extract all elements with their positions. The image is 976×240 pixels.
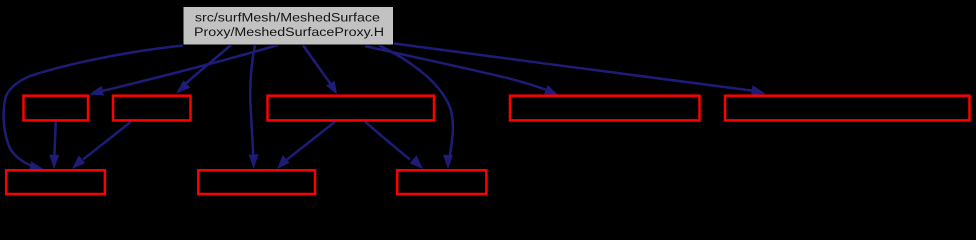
edge: MeshedSurfaceProxy.H -> boxC (right curve) bbox=[379, 46, 453, 157]
arrowhead into box4 bbox=[544, 85, 558, 95]
edge: MeshedSurfaceProxy.H -> box2 bbox=[183, 45, 231, 86]
arrowhead into box3 bbox=[326, 81, 337, 95]
edge: MeshedSurfaceProxy.H -> boxB (center curve) bbox=[250, 45, 255, 156]
edge: box2 -> boxA (diagonal) bbox=[83, 122, 131, 160]
edge: MeshedSurfaceProxy.H -> box3 bbox=[303, 45, 332, 86]
edge: MeshedSurfaceProxy.H -> boxA (long left swoop) bbox=[4, 46, 183, 166]
node box3 (included header, row 2 wide center) bbox=[268, 96, 435, 121]
edge: MeshedSurfaceProxy.H -> box1 bbox=[98, 45, 278, 92]
arrowhead into boxA (right) bbox=[72, 156, 85, 170]
arrowhead into boxA (left) bbox=[29, 161, 43, 171]
edge: box3 -> boxB (diagonal) bbox=[287, 122, 335, 160]
edge: box3 -> boxC (diagonal) bbox=[365, 122, 410, 160]
svg-text:Proxy/MeshedSurfaceProxy.H: Proxy/MeshedSurfaceProxy.H bbox=[194, 25, 384, 39]
edge: box1 -> boxA (vertical) bbox=[54, 122, 55, 156]
node boxB (included header, bottom middle) bbox=[198, 170, 315, 194]
arrowhead into box5 bbox=[751, 85, 766, 95]
arrowhead into boxA (middle) bbox=[49, 155, 59, 169]
node box2 (included header, row 2 second) bbox=[113, 96, 191, 121]
arrowhead into boxC (right) bbox=[443, 155, 453, 169]
arrowhead into boxB (left) bbox=[249, 154, 259, 169]
svg-text:src/surfMesh/MeshedSurface: src/surfMesh/MeshedSurface bbox=[195, 11, 380, 25]
node: src/surfMesh/MeshedSurfaceProxy/MeshedSurfaceProxy.H (current file, grey) bbox=[183, 7, 394, 46]
edge: MeshedSurfaceProxy.H -> box5 bbox=[394, 44, 752, 91]
node boxC (included header, bottom right) bbox=[397, 170, 486, 194]
arrowhead into box2 bbox=[176, 80, 190, 93]
node box1 (included header, row 2 leftmost) bbox=[24, 96, 89, 121]
node box5 (included header, row 2 far right) bbox=[725, 96, 970, 121]
arrowhead into boxB (right) bbox=[277, 155, 290, 169]
edge: MeshedSurfaceProxy.H -> box4 bbox=[365, 46, 546, 90]
node box4 (included header, row 2 right) bbox=[510, 96, 700, 121]
arrowhead into box1 bbox=[89, 86, 104, 96]
arrowhead into boxC (left) bbox=[410, 155, 423, 169]
node boxA (included header, bottom left) bbox=[6, 170, 105, 194]
